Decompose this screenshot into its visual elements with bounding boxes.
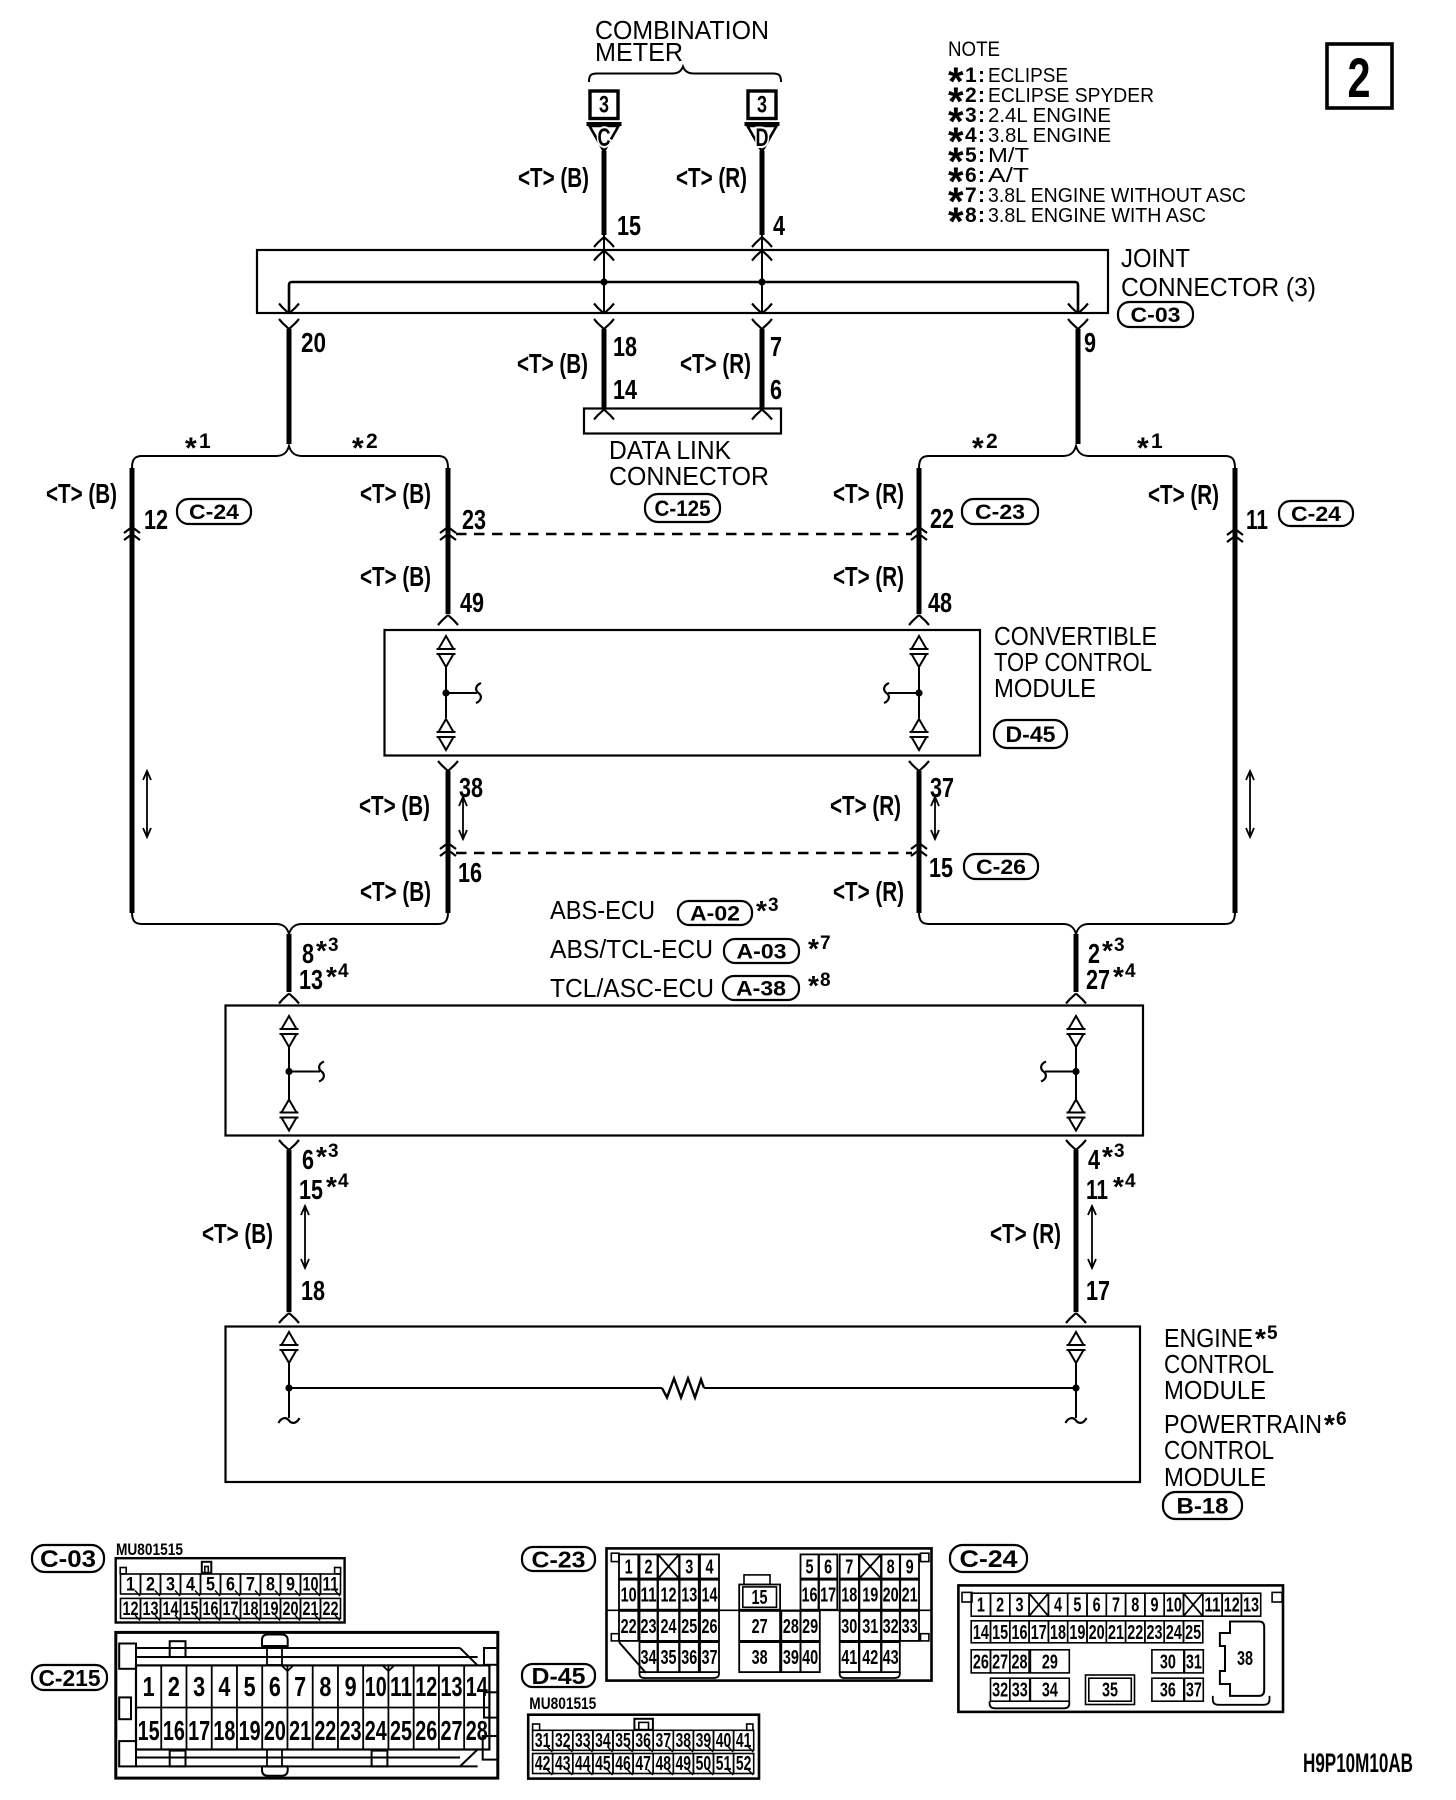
svg-text:4: 4 bbox=[338, 1171, 349, 1192]
svg-text:35: 35 bbox=[661, 1647, 677, 1669]
svg-text:28: 28 bbox=[783, 1616, 799, 1638]
svg-text:MODULE: MODULE bbox=[1164, 1375, 1266, 1405]
svg-text:3.8L ENGINE: 3.8L ENGINE bbox=[988, 125, 1111, 147]
C-215 pinout drawing bbox=[116, 1632, 498, 1778]
svg-text:<T> (B): <T> (B) bbox=[360, 478, 431, 509]
connector code C-24 right bbox=[1279, 501, 1353, 526]
svg-text:<T> (R): <T> (R) bbox=[830, 790, 901, 821]
svg-text:<T> (B): <T> (B) bbox=[518, 162, 589, 193]
svg-text:37: 37 bbox=[655, 1730, 671, 1752]
svg-text:5: 5 bbox=[806, 1556, 814, 1578]
svg-text:35: 35 bbox=[1102, 1680, 1118, 1702]
svg-text:12: 12 bbox=[1224, 1595, 1240, 1617]
svg-text:16: 16 bbox=[163, 1715, 185, 1746]
wire 18 to engine module bbox=[287, 1150, 292, 1312]
svg-text:15: 15 bbox=[617, 210, 641, 241]
connector pin box 3 (right) bbox=[748, 91, 776, 119]
svg-text:13: 13 bbox=[1243, 1595, 1259, 1617]
svg-text:*: * bbox=[1102, 935, 1113, 966]
svg-text:2: 2 bbox=[996, 1595, 1004, 1617]
svg-text:1: 1 bbox=[625, 1556, 633, 1578]
junction dot engine left bbox=[285, 1384, 292, 1391]
wire D through joint connector bbox=[761, 235, 763, 313]
svg-text:3: 3 bbox=[193, 1671, 205, 1702]
svg-text:C-125: C-125 bbox=[655, 496, 711, 521]
svg-text:H9P10M10AB: H9P10M10AB bbox=[1303, 1748, 1413, 1778]
data link connector box bbox=[584, 409, 781, 434]
svg-text:20: 20 bbox=[1089, 1622, 1105, 1644]
svg-text:23: 23 bbox=[641, 1616, 657, 1638]
svg-text:6: 6 bbox=[824, 1556, 832, 1578]
module right branch to other circuits bbox=[888, 692, 919, 694]
fork mark wire38 from module bbox=[438, 761, 448, 771]
svg-text:4: 4 bbox=[1088, 1144, 1100, 1175]
wire D to joint connector bbox=[760, 151, 765, 235]
svg-text:18: 18 bbox=[301, 1275, 325, 1306]
svg-text:42: 42 bbox=[862, 1647, 878, 1669]
svg-text:*: * bbox=[1113, 1171, 1124, 1202]
inline arrow far-left wire bbox=[146, 773, 148, 835]
fork mark DLC pin6 bbox=[752, 410, 762, 420]
svg-text:15: 15 bbox=[752, 1587, 768, 1609]
connector code C-215 bottom bbox=[32, 1665, 107, 1690]
svg-text:31: 31 bbox=[535, 1730, 551, 1752]
svg-text:<T> (R): <T> (R) bbox=[676, 162, 747, 193]
svg-text:37: 37 bbox=[1186, 1680, 1202, 1702]
svg-text::: : bbox=[978, 204, 985, 227]
svg-text:7: 7 bbox=[246, 1575, 255, 1596]
svg-text:A-02: A-02 bbox=[690, 903, 740, 926]
svg-text:9: 9 bbox=[1151, 1595, 1159, 1617]
svg-text:10: 10 bbox=[365, 1671, 387, 1702]
svg-text:31: 31 bbox=[1186, 1651, 1202, 1673]
ABS terminal right triangles top bbox=[1069, 1016, 1084, 1029]
inline arrow far-right wire bbox=[1249, 773, 1251, 835]
svg-text:3: 3 bbox=[328, 935, 339, 956]
resistor inside engine module bbox=[662, 1379, 704, 1398]
fork mark engine left entry bbox=[279, 1313, 289, 1323]
svg-text:11: 11 bbox=[323, 1575, 339, 1596]
svg-text:C: C bbox=[598, 124, 611, 152]
engine left squiggle to other circuits bbox=[279, 1418, 300, 1423]
svg-text:2: 2 bbox=[1348, 46, 1371, 109]
svg-text:23: 23 bbox=[340, 1715, 362, 1746]
page number box 2 bbox=[1327, 44, 1392, 108]
svg-text:5: 5 bbox=[1073, 1595, 1081, 1617]
connector pin box 3 (left) bbox=[590, 91, 618, 119]
svg-text:43: 43 bbox=[555, 1753, 571, 1775]
engine terminal left lead bbox=[288, 1363, 290, 1418]
connector code C-03 bottom bbox=[32, 1545, 104, 1572]
svg-text:3: 3 bbox=[1114, 1141, 1125, 1162]
connector code C-26 bbox=[964, 854, 1038, 879]
svg-text:18: 18 bbox=[613, 331, 637, 362]
svg-text:3: 3 bbox=[166, 1575, 175, 1596]
svg-text:41: 41 bbox=[841, 1647, 857, 1669]
module terminal left lead bbox=[445, 667, 447, 718]
svg-text:34: 34 bbox=[641, 1647, 658, 1669]
connector code C-24 left bbox=[177, 499, 251, 524]
brace combination meter bbox=[589, 67, 781, 83]
brace left *1/*2 bbox=[132, 446, 448, 468]
wire pin9 down-right bbox=[1076, 329, 1081, 444]
wire into ABS left bbox=[287, 934, 292, 992]
svg-text:20: 20 bbox=[301, 327, 326, 358]
svg-text:31: 31 bbox=[862, 1616, 878, 1638]
fork mark DLC pin14 bbox=[594, 410, 604, 420]
svg-text:<T> (R): <T> (R) bbox=[990, 1218, 1061, 1249]
fork mark ABS left entry bbox=[279, 994, 289, 1004]
svg-text:38: 38 bbox=[676, 1730, 692, 1752]
svg-text:40: 40 bbox=[716, 1730, 732, 1752]
continuation chevrons inner-right wire bbox=[911, 527, 927, 533]
svg-text:1: 1 bbox=[199, 430, 211, 453]
svg-text:C-03: C-03 bbox=[1131, 304, 1181, 327]
svg-text:4: 4 bbox=[218, 1671, 230, 1702]
svg-text:9: 9 bbox=[345, 1671, 357, 1702]
svg-text:MU801515: MU801515 bbox=[529, 1694, 596, 1713]
svg-text:B-18: B-18 bbox=[1177, 1493, 1229, 1518]
svg-text:34: 34 bbox=[1042, 1680, 1059, 1702]
svg-text:<T> (R): <T> (R) bbox=[680, 348, 751, 379]
svg-text:46: 46 bbox=[615, 1753, 631, 1775]
svg-text:33: 33 bbox=[575, 1730, 591, 1752]
svg-text:ABS/TCL-ECU: ABS/TCL-ECU bbox=[550, 934, 713, 964]
svg-text:21: 21 bbox=[289, 1715, 311, 1746]
svg-text:17: 17 bbox=[820, 1585, 836, 1607]
svg-text:CONTROL: CONTROL bbox=[1164, 1435, 1274, 1465]
svg-text:25: 25 bbox=[390, 1715, 412, 1746]
svg-text:12: 12 bbox=[661, 1585, 677, 1607]
connector code D-45 bottom bbox=[522, 1664, 595, 1687]
svg-text:17: 17 bbox=[223, 1599, 239, 1620]
svg-text:*: * bbox=[808, 933, 819, 964]
module terminal right triangles top bbox=[912, 636, 927, 649]
svg-text:4: 4 bbox=[1054, 1595, 1063, 1617]
svg-text:*: * bbox=[948, 200, 964, 244]
svg-text:19: 19 bbox=[263, 1599, 279, 1620]
svg-text:9: 9 bbox=[1084, 327, 1096, 358]
svg-text:8: 8 bbox=[1131, 1595, 1139, 1617]
C-03 pinout drawing bbox=[116, 1558, 345, 1622]
svg-text:C-215: C-215 bbox=[39, 1665, 101, 1691]
svg-text:28: 28 bbox=[466, 1715, 488, 1746]
svg-text:*: * bbox=[808, 970, 819, 1001]
continuation chevrons inner-left wire bbox=[440, 527, 456, 533]
svg-text:36: 36 bbox=[681, 1647, 697, 1669]
svg-text:16: 16 bbox=[1011, 1622, 1027, 1644]
svg-text:21: 21 bbox=[902, 1585, 918, 1607]
svg-text:26: 26 bbox=[702, 1616, 718, 1638]
fork mark ABS right exit bbox=[1066, 1140, 1076, 1150]
svg-text:11: 11 bbox=[1204, 1595, 1220, 1617]
svg-text:21: 21 bbox=[303, 1599, 319, 1620]
inline arrow right engine wire bbox=[1091, 1208, 1093, 1266]
merge brace left bbox=[132, 912, 448, 934]
C-23 pinout drawing bbox=[607, 1548, 932, 1680]
svg-text:14: 14 bbox=[702, 1585, 719, 1607]
svg-text:4: 4 bbox=[773, 210, 785, 241]
svg-text:ECLIPSE SPYDER: ECLIPSE SPYDER bbox=[988, 85, 1154, 107]
svg-text:6: 6 bbox=[770, 374, 782, 405]
svg-text:5: 5 bbox=[1267, 1323, 1278, 1344]
svg-text:16: 16 bbox=[802, 1585, 818, 1607]
svg-text:17: 17 bbox=[188, 1715, 210, 1746]
svg-text:8: 8 bbox=[965, 204, 977, 227]
svg-text:*: * bbox=[1137, 432, 1149, 465]
svg-text:34: 34 bbox=[595, 1730, 611, 1752]
svg-text:2: 2 bbox=[146, 1575, 155, 1596]
svg-text:3: 3 bbox=[599, 92, 609, 119]
svg-text:49: 49 bbox=[460, 587, 484, 618]
svg-text:4: 4 bbox=[706, 1556, 715, 1578]
svg-text:10: 10 bbox=[1166, 1595, 1182, 1617]
continuation chevrons wire15 bbox=[911, 843, 927, 849]
svg-text:3: 3 bbox=[328, 1141, 339, 1162]
svg-text:METER: METER bbox=[595, 37, 683, 67]
svg-text:21: 21 bbox=[1108, 1622, 1124, 1644]
wire far-right C-24 branch bbox=[1233, 468, 1238, 913]
fork mark wire37 from module bbox=[909, 761, 919, 771]
merge brace right bbox=[919, 912, 1235, 934]
dashed link 16 to 15 bbox=[456, 852, 912, 855]
junction dot C bus bbox=[600, 278, 607, 285]
svg-text:*: * bbox=[1324, 1409, 1335, 1440]
connector code C-125 bbox=[645, 494, 720, 522]
svg-text:<T> (R): <T> (R) bbox=[1148, 479, 1219, 510]
svg-text:18: 18 bbox=[243, 1599, 259, 1620]
svg-text:7: 7 bbox=[294, 1671, 306, 1702]
junction dot module left bbox=[442, 689, 449, 696]
svg-text:10: 10 bbox=[621, 1585, 637, 1607]
svg-text:42: 42 bbox=[535, 1753, 551, 1775]
svg-text:4: 4 bbox=[338, 961, 349, 982]
svg-text:4: 4 bbox=[186, 1575, 195, 1596]
svg-text:MODULE: MODULE bbox=[1164, 1462, 1266, 1492]
svg-text:23: 23 bbox=[1147, 1622, 1163, 1644]
svg-text:32: 32 bbox=[555, 1730, 571, 1752]
svg-text:6: 6 bbox=[269, 1671, 281, 1702]
svg-text:14: 14 bbox=[466, 1671, 488, 1702]
module terminal left triangles bottom bbox=[439, 719, 454, 732]
svg-text:JOINT: JOINT bbox=[1121, 243, 1190, 273]
svg-text:26: 26 bbox=[415, 1715, 437, 1746]
inline arrow left engine wire bbox=[304, 1208, 306, 1266]
svg-text:1: 1 bbox=[1151, 430, 1163, 453]
svg-text:C-24: C-24 bbox=[1291, 503, 1341, 526]
engine internal wire right bbox=[704, 1387, 1076, 1389]
connector code C-23 bottom bbox=[522, 1547, 595, 1571]
svg-text:8: 8 bbox=[887, 1556, 895, 1578]
svg-text:A-03: A-03 bbox=[737, 941, 787, 964]
svg-text:18: 18 bbox=[213, 1715, 235, 1746]
svg-text:7: 7 bbox=[1112, 1595, 1120, 1617]
svg-text:MU801515: MU801515 bbox=[116, 1540, 183, 1559]
svg-text:*: * bbox=[185, 432, 197, 465]
svg-text:36: 36 bbox=[635, 1730, 651, 1752]
svg-text:3: 3 bbox=[1114, 935, 1125, 956]
svg-text:23: 23 bbox=[462, 504, 486, 535]
svg-text:ABS-ECU: ABS-ECU bbox=[550, 895, 655, 925]
svg-text:19: 19 bbox=[239, 1715, 261, 1746]
fork mark wire48 into module bbox=[909, 615, 919, 625]
svg-text:38: 38 bbox=[752, 1647, 768, 1669]
junction dot engine right bbox=[1072, 1384, 1079, 1391]
svg-text:22: 22 bbox=[930, 503, 954, 534]
engine terminal right triangles bbox=[1069, 1332, 1084, 1345]
svg-text:32: 32 bbox=[992, 1680, 1008, 1702]
ABS terminal left triangles top bbox=[282, 1016, 297, 1029]
svg-text:22: 22 bbox=[1127, 1622, 1143, 1644]
svg-text:15: 15 bbox=[299, 1174, 323, 1205]
ABS terminal left triangles bottom bbox=[282, 1100, 297, 1113]
ABS terminal left lead bbox=[288, 1047, 290, 1100]
svg-text:10: 10 bbox=[303, 1575, 319, 1596]
wire far-left C-24 branch bbox=[130, 468, 135, 913]
svg-text:12: 12 bbox=[144, 504, 168, 535]
engine terminal left triangles bbox=[282, 1332, 297, 1345]
svg-text:15: 15 bbox=[138, 1715, 160, 1746]
svg-text:<T> (R): <T> (R) bbox=[833, 478, 904, 509]
fork marks wire C into joint connector bbox=[594, 237, 604, 247]
engine terminal right lead bbox=[1075, 1363, 1077, 1418]
svg-text:49: 49 bbox=[676, 1753, 692, 1775]
svg-text:3.8L ENGINE WITH ASC: 3.8L ENGINE WITH ASC bbox=[988, 205, 1206, 227]
svg-text:47: 47 bbox=[635, 1753, 651, 1775]
svg-text:TCL/ASC-ECU: TCL/ASC-ECU bbox=[550, 973, 714, 1003]
wire 18-14 to data link connector bbox=[602, 329, 607, 409]
connector code C-24 bottom bbox=[950, 1545, 1027, 1572]
svg-text:*: * bbox=[326, 1171, 337, 1202]
connector code C-23 mid bbox=[962, 499, 1038, 524]
svg-text:14: 14 bbox=[973, 1622, 990, 1644]
continuation chevrons far-left wire bbox=[124, 527, 140, 533]
svg-text:3: 3 bbox=[757, 92, 767, 119]
svg-text:20: 20 bbox=[264, 1715, 286, 1746]
wire 17 to engine module bbox=[1074, 1150, 1079, 1312]
svg-text:48: 48 bbox=[928, 587, 952, 618]
wire into ABS right bbox=[1074, 934, 1079, 992]
svg-text:1: 1 bbox=[977, 1595, 985, 1617]
svg-text:C-26: C-26 bbox=[976, 856, 1026, 879]
svg-text:25: 25 bbox=[1185, 1622, 1201, 1644]
module left branch to other circuits bbox=[446, 692, 477, 694]
svg-text:27: 27 bbox=[992, 1651, 1008, 1673]
svg-text:12: 12 bbox=[415, 1671, 437, 1702]
junction dot D bus bbox=[758, 278, 765, 285]
svg-text:6: 6 bbox=[226, 1575, 235, 1596]
svg-text:11: 11 bbox=[1246, 504, 1268, 535]
svg-text:2: 2 bbox=[168, 1671, 180, 1702]
svg-text:5: 5 bbox=[206, 1575, 215, 1596]
brace right *2/*1 bbox=[919, 446, 1235, 468]
svg-text:11: 11 bbox=[1086, 1174, 1108, 1205]
dashed link 23 to 22 bbox=[456, 533, 912, 536]
svg-text:24: 24 bbox=[661, 1616, 678, 1638]
svg-text:7: 7 bbox=[820, 933, 831, 954]
inline arrow wire37 bbox=[934, 799, 936, 837]
svg-text:29: 29 bbox=[1042, 1651, 1058, 1673]
ABS terminal right triangles bottom bbox=[1069, 1100, 1084, 1113]
wire 37-15 bbox=[917, 771, 922, 913]
svg-text:41: 41 bbox=[736, 1730, 752, 1752]
svg-text:19: 19 bbox=[862, 1585, 878, 1607]
inline arrow wire38 bbox=[462, 799, 464, 837]
svg-text:13: 13 bbox=[143, 1599, 159, 1620]
svg-text:51: 51 bbox=[716, 1753, 732, 1775]
svg-text:1: 1 bbox=[143, 1671, 155, 1702]
svg-text:<T> (B): <T> (B) bbox=[360, 876, 431, 907]
svg-text:24: 24 bbox=[1166, 1622, 1183, 1644]
svg-text:<T> (B): <T> (B) bbox=[46, 478, 117, 509]
svg-text:7: 7 bbox=[770, 331, 782, 362]
svg-text:38: 38 bbox=[1237, 1648, 1253, 1670]
svg-text:C-23: C-23 bbox=[532, 1546, 586, 1572]
svg-text:33: 33 bbox=[902, 1616, 918, 1638]
engine right squiggle to other circuits bbox=[1066, 1418, 1087, 1423]
continuation chevrons far-right wire bbox=[1227, 529, 1243, 535]
fork mark wire49 into module bbox=[438, 615, 448, 625]
svg-text:13: 13 bbox=[681, 1585, 697, 1607]
svg-text:26: 26 bbox=[973, 1651, 989, 1673]
svg-text:5: 5 bbox=[244, 1671, 256, 1702]
svg-text:D-45: D-45 bbox=[532, 1663, 586, 1689]
fork marks joint connector bottom x1078 bbox=[1068, 304, 1078, 314]
svg-text:6: 6 bbox=[1093, 1595, 1101, 1617]
svg-text:43: 43 bbox=[883, 1647, 899, 1669]
fork marks joint connector bottom x762 bbox=[752, 304, 762, 314]
wire pin20 down-left bbox=[287, 329, 292, 444]
svg-text:22: 22 bbox=[323, 1599, 339, 1620]
svg-text:6: 6 bbox=[302, 1144, 314, 1175]
svg-text:MODULE: MODULE bbox=[994, 673, 1096, 703]
wire inner-left 23-49 branch bbox=[446, 468, 451, 614]
svg-text:4: 4 bbox=[1125, 1171, 1136, 1192]
connector code A-38 bbox=[723, 976, 799, 1000]
svg-text:18: 18 bbox=[1050, 1622, 1066, 1644]
C-24 pinout drawing bbox=[958, 1585, 1283, 1712]
svg-text:27: 27 bbox=[752, 1616, 768, 1638]
fork marks joint connector bottom x604 bbox=[594, 304, 604, 314]
svg-text:*: * bbox=[352, 432, 364, 465]
svg-text:18: 18 bbox=[841, 1585, 857, 1607]
svg-text:<T> (B): <T> (B) bbox=[360, 561, 431, 592]
joint connector internal bus wire bbox=[289, 282, 1078, 313]
svg-text:*: * bbox=[316, 1141, 327, 1172]
svg-text:1: 1 bbox=[126, 1575, 135, 1596]
svg-text:11: 11 bbox=[641, 1585, 657, 1607]
module terminal right lead bbox=[918, 667, 920, 718]
svg-text:ECLIPSE: ECLIPSE bbox=[988, 65, 1068, 87]
svg-text:3: 3 bbox=[1015, 1595, 1023, 1617]
svg-text:7: 7 bbox=[845, 1556, 853, 1578]
svg-text:35: 35 bbox=[615, 1730, 631, 1752]
svg-text:9: 9 bbox=[286, 1575, 295, 1596]
svg-text:15: 15 bbox=[929, 852, 953, 883]
svg-text:A-38: A-38 bbox=[736, 978, 786, 1001]
svg-text:<T> (R): <T> (R) bbox=[833, 876, 904, 907]
connector code A-03 bbox=[724, 939, 799, 963]
svg-text:<T> (B): <T> (B) bbox=[202, 1218, 273, 1249]
convertible top control module D-45 box bbox=[385, 630, 981, 756]
svg-text:17: 17 bbox=[1086, 1275, 1110, 1306]
svg-text:40: 40 bbox=[802, 1647, 818, 1669]
connector code A-02 bbox=[678, 901, 752, 925]
svg-text:8: 8 bbox=[820, 970, 831, 991]
svg-text:39: 39 bbox=[696, 1730, 712, 1752]
svg-text:12: 12 bbox=[123, 1599, 139, 1620]
svg-text:22: 22 bbox=[621, 1616, 637, 1638]
